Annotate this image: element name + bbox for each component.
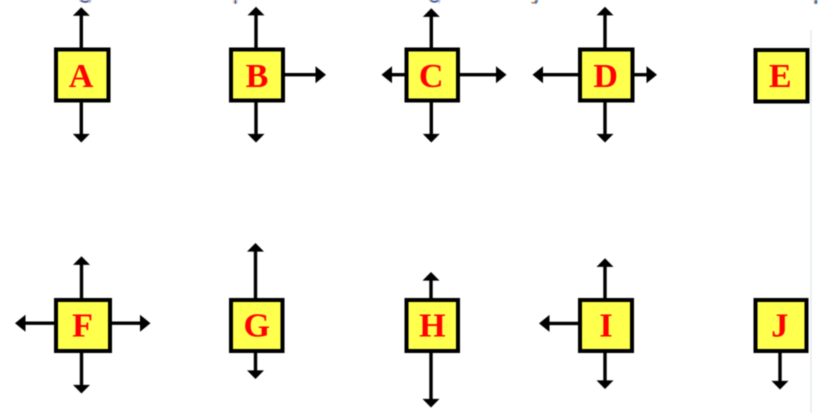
cut-off text descender: letter o bowl above box A [80,0,91,3]
cut-off text descender: vertical bar top right [814,0,819,4]
arrow down from F [80,353,83,386]
box C group [382,8,507,142]
arrow down from J [778,353,781,382]
box D group [533,7,658,143]
box G group [231,243,283,379]
box I [580,300,632,351]
cut-off text descender: vertical bar left of box B arrow [233,0,238,4]
box B [231,50,283,101]
box H group [407,272,459,408]
box I group [539,258,632,389]
svg-text:H: H [419,307,445,344]
arrow down from B [254,103,257,136]
arrow right from F [112,322,141,325]
svg-text:F: F [72,307,93,344]
arrow down from I [603,353,606,382]
arrow down from G (short) [254,353,257,372]
box A [56,50,109,101]
arrow right from D (short) [635,73,648,76]
arrow up from F [80,264,83,299]
svg-text:E: E [769,58,792,95]
arrow left from I [549,322,579,325]
arrow left from F [25,322,55,325]
box G [231,300,283,351]
arrow left from C (short) [391,73,405,76]
arrow down from D [603,103,606,136]
arrow up from I [603,266,606,299]
svg-text:C: C [419,58,444,95]
arrow right from B [285,73,317,76]
arrow up from A [80,15,83,48]
svg-text:I: I [599,307,612,344]
svg-text:A: A [69,58,94,95]
arrow down from H (long) [429,353,432,400]
box H [407,300,459,351]
svg-text:B: B [246,58,269,95]
box C [407,50,459,101]
box J [756,300,807,351]
svg-text:G: G [243,307,269,344]
arrow right from C (long) [460,73,497,76]
box E group (no arrows) [756,50,808,102]
arrow up from H (short) [429,279,432,298]
arrow down from A [80,103,83,136]
cut-off text descender: letter j hook above box D [531,0,537,4]
arrow up from D [603,14,606,48]
arrow up from B [254,14,257,48]
svg-text:J: J [771,307,788,344]
box D [580,50,633,101]
box B group [231,7,326,143]
box F group [15,256,151,393]
arrow down from C [430,103,433,136]
box F [56,300,110,351]
arrow left from D (long) [542,73,578,76]
arrow up from G (long) [254,250,257,298]
arrow up from C [430,16,433,48]
svg-text:D: D [593,58,618,95]
box J group [756,300,807,390]
box E [756,50,808,102]
box A group [56,7,109,142]
faint page frame line at right [810,30,811,413]
cut-off text descender: letter o bowl above box C [430,0,441,3]
